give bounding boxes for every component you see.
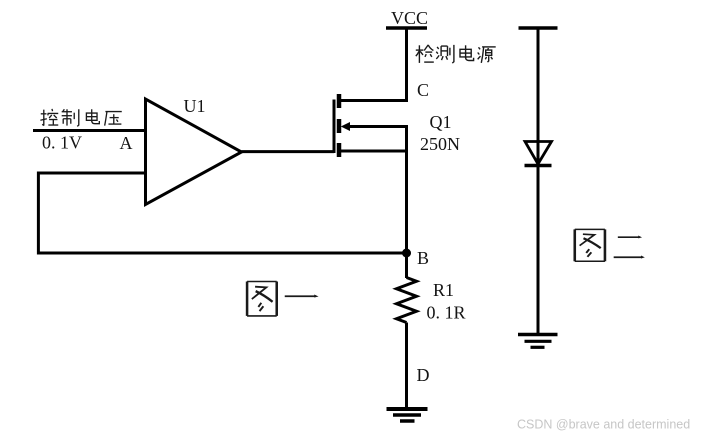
diode D (figure 2) <box>525 142 552 166</box>
svg-text:U1: U1 <box>184 96 206 116</box>
label 图一 (figure 1) <box>247 282 319 316</box>
wire: node B to resistor <box>405 253 408 278</box>
wire: non-inverting input (top) <box>33 129 146 132</box>
svg-text:250N: 250N <box>420 134 460 154</box>
resistor R1 <box>397 278 417 323</box>
wire: figure 2 vertical <box>537 28 540 335</box>
drain lead <box>339 28 407 101</box>
svg-text:0. 1R: 0. 1R <box>427 303 466 323</box>
label 图二 (figure 2) <box>575 229 645 261</box>
label 检测电源 (sense supply) <box>416 45 496 63</box>
svg-text:C: C <box>417 80 429 100</box>
op-amp U1 <box>146 99 242 205</box>
wire: op-amp output to gate <box>242 150 335 153</box>
wire: feedback horizontal to node B <box>37 252 407 255</box>
svg-text:Q1: Q1 <box>430 112 452 132</box>
figure 2: top rail bar <box>519 26 558 30</box>
svg-text:B: B <box>417 248 429 268</box>
VCC rail bar <box>386 26 427 30</box>
svg-text:0. 1V: 0. 1V <box>42 133 82 153</box>
transistor Q1 (N-MOSFET) <box>334 28 407 253</box>
node B junction dot <box>402 249 411 258</box>
channel stub body <box>337 119 342 133</box>
body lead with arrow <box>348 127 407 254</box>
wire: feedback vertical left <box>37 172 40 255</box>
svg-text:A: A <box>120 133 133 153</box>
svg-text:VCC: VCC <box>391 8 428 28</box>
label 控制电压 (control voltage) <box>40 109 121 126</box>
wire: resistor to ground <box>405 323 408 410</box>
channel stub drain <box>337 94 342 108</box>
ground (figure 2) <box>518 335 558 348</box>
ground (figure 1) <box>387 409 428 421</box>
svg-text:D: D <box>417 365 430 385</box>
Q1 body arrow <box>341 122 350 131</box>
svg-text:CSDN @brave and determined: CSDN @brave and determined <box>517 418 690 432</box>
wire: inverting input (bottom) <box>37 172 146 175</box>
channel stub source <box>337 143 342 157</box>
svg-text:R1: R1 <box>433 280 454 300</box>
source lead <box>339 150 407 153</box>
gate bar <box>333 100 336 154</box>
